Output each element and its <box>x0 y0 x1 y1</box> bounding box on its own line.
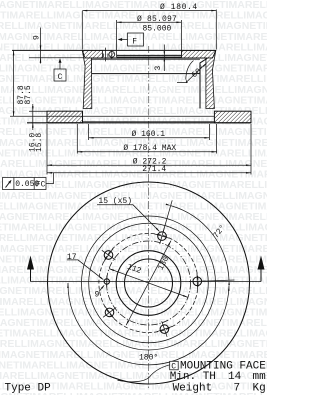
outer circle (Ø272.2) <box>48 182 250 384</box>
hub bore circle (Ø85) <box>116 251 181 316</box>
hub bore edges (Ø85) <box>117 20 182 57</box>
datum F box <box>128 33 144 46</box>
svg-text:9: 9 <box>95 291 100 300</box>
svg-text:17: 17 <box>67 253 77 262</box>
vertical centerline <box>148 174 150 390</box>
svg-text:Ø 160.1: Ø 160.1 <box>132 130 166 139</box>
svg-text:Weight: Weight <box>173 383 213 395</box>
60 deg chamfer line <box>200 58 207 63</box>
dim 9 vertical line <box>40 28 42 64</box>
svg-text:87.5: 87.5 <box>24 85 33 104</box>
bolt hole circle Ø130 (dashed) <box>99 233 198 332</box>
circle Ø160.1 <box>89 223 209 343</box>
svg-text:C: C <box>171 362 176 371</box>
svg-text:Min. TH: Min. TH <box>170 371 216 383</box>
hat top band right piece (sectioned) <box>181 50 215 58</box>
circle Ø112 (dash-dot) <box>107 241 191 325</box>
hat right wall (sectioned) <box>206 50 216 108</box>
svg-text:mm: mm <box>253 371 267 383</box>
svg-text:Type DP: Type DP <box>5 383 52 395</box>
hat top band left piece (sectioned) <box>82 50 102 58</box>
hat inner wall right <box>199 63 201 109</box>
bolt hole in section (gap) edge ticks <box>103 54 108 58</box>
mounting face line extended left <box>29 57 85 59</box>
svg-text:7: 7 <box>234 383 241 395</box>
mounting face leader <box>118 365 170 382</box>
hub recess step top line <box>91 58 200 60</box>
dim 112 line <box>109 269 188 298</box>
hat band inner face line <box>85 57 207 59</box>
svg-text:14: 14 <box>228 371 242 383</box>
runout frame leader <box>46 173 54 184</box>
hat top face line <box>12 49 216 51</box>
svg-text:180°: 180° <box>139 353 158 362</box>
datum C box <box>54 69 66 81</box>
svg-text:Ø 178.4 MAX: Ø 178.4 MAX <box>123 144 176 153</box>
dim 180deg arc <box>68 283 229 365</box>
dim Ø85.097 line <box>117 21 182 23</box>
svg-text:9: 9 <box>33 35 42 40</box>
svg-text:271.4: 271.4 <box>142 165 166 174</box>
bolt hole centerline <box>105 48 107 62</box>
section arrow left <box>30 269 32 282</box>
dim Ø180.4 line <box>82 10 216 50</box>
datum C mounting face box <box>170 361 179 370</box>
section centerline <box>148 46 150 173</box>
hat left wall (sectioned) <box>82 50 92 108</box>
hub recess left wall <box>90 59 92 74</box>
svg-text:Ø 85.097: Ø 85.097 <box>137 15 177 24</box>
hub recess step bottom line <box>91 73 200 75</box>
svg-text:F: F <box>132 37 137 46</box>
dim 3 line <box>163 45 165 72</box>
horizontal centerline <box>31 281 262 283</box>
flange inner edge lines seen through hat <box>10 116 214 122</box>
svg-text:3: 3 <box>154 66 163 71</box>
dim Ø272.2 <box>47 124 251 175</box>
hub pilot circle <box>125 259 173 307</box>
dim 271.4 <box>47 172 251 174</box>
radial ext line hole at 74deg <box>163 200 172 232</box>
dim 16.0/15.8 line <box>32 104 34 130</box>
svg-text:FC: FC <box>36 181 46 190</box>
locating hole rotated into section (hatched circle) <box>109 51 115 57</box>
dim 60deg arc <box>186 61 194 80</box>
dim Ø160.1 <box>89 124 210 140</box>
svg-text:C: C <box>58 73 63 82</box>
flange top line extended left <box>29 110 47 112</box>
dim Ø178.4 MAX <box>77 124 216 154</box>
svg-text:85.000: 85.000 <box>143 24 172 33</box>
dim 72deg arc <box>171 206 229 281</box>
dim 60deg rays <box>177 63 207 83</box>
radial ext line hole at 2deg <box>202 280 235 281</box>
flange left block (sectioned) <box>47 111 83 123</box>
svg-text:15.8: 15.8 <box>35 133 44 152</box>
hat outer circle (Ø180.4) <box>82 216 216 350</box>
svg-text:Ø 180.4: Ø 180.4 <box>160 3 198 12</box>
svg-text:Kg: Kg <box>253 383 266 395</box>
five bolt holes Ø15 with centerline ticks <box>193 277 202 286</box>
bore recess lines <box>117 55 182 57</box>
dim 130 line <box>126 241 171 325</box>
flange right block (sectioned) <box>214 111 251 123</box>
section arrow right <box>260 269 262 282</box>
flange bottom line <box>27 122 251 124</box>
dim 87.8/87.5 line <box>13 50 15 116</box>
runout tolerance frame <box>3 178 47 190</box>
locating hole Ø9 <box>104 279 109 284</box>
